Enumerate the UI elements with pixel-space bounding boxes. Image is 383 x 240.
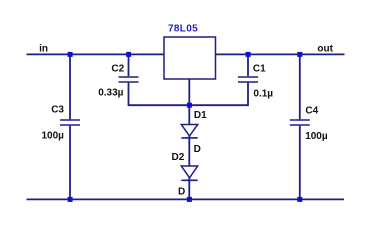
label C4 [305,105,318,116]
wire between D1 cathode and D2 anode (node D) [188,136,190,166]
wire top rail left segment (in net) [27,53,165,55]
svg-text:in: in [39,43,48,54]
capacitor C3 [60,55,80,199]
svg-text:C3: C3 [51,105,64,116]
label 0.33µ (C2 value) [98,87,123,98]
label C3 [51,105,64,116]
node junction C4 bottom [297,197,302,202]
capacitor C4 [290,55,310,199]
label 100µ (C4 value) [305,131,328,142]
svg-text:100µ: 100µ [42,131,65,142]
svg-text:D: D [178,186,185,197]
wire bottom ground rail [27,198,345,200]
svg-text:100µ: 100µ [305,131,328,142]
wire top rail right segment (out net) [216,53,345,55]
wire from middle rail junction down to D1 anode [188,105,190,124]
svg-text:D1: D1 [194,110,207,121]
label D2 [172,152,185,163]
node junction C3 bottom [68,197,73,202]
node junction C1 top [246,52,251,57]
label node D (middle) [194,144,201,155]
op-amp U1 78L05 regulator box [164,37,216,79]
diode D2 [181,166,197,180]
label C1 [253,64,266,75]
wire U1 ground pin down to middle rail [188,79,190,105]
svg-text:C2: C2 [111,63,124,74]
svg-text:0.33µ: 0.33µ [98,87,123,98]
wire from D2 cathode down to bottom rail [188,178,190,200]
svg-text:D: D [194,144,201,155]
svg-text:D2: D2 [172,152,185,163]
node junction out / C4 top [297,52,302,57]
diode D1 [181,125,197,138]
svg-text:78L05: 78L05 [168,24,198,35]
node junction in / C3 top [68,52,73,57]
capacitor C1 [238,55,258,82]
node junction C2 top [126,52,131,57]
capacitor C2 [119,55,139,82]
label 100µ (C3 value) [42,131,65,142]
svg-text:out: out [317,43,333,54]
svg-text:0.1µ: 0.1µ [253,88,273,99]
node junction D2 bottom [187,197,192,202]
label 0.1µ (C1 value) [253,88,273,99]
node junction middle rail / D1 [187,103,192,108]
label in [39,43,48,54]
label out [317,43,333,54]
svg-text:C4: C4 [305,105,318,116]
label C2 [111,63,124,74]
wire middle rail connecting C2, U1 pin, C1 [129,83,249,106]
label D1 [194,110,207,121]
label 78L05 [168,24,198,35]
label node D (bottom) [178,186,185,197]
svg-text:C1: C1 [253,64,266,75]
